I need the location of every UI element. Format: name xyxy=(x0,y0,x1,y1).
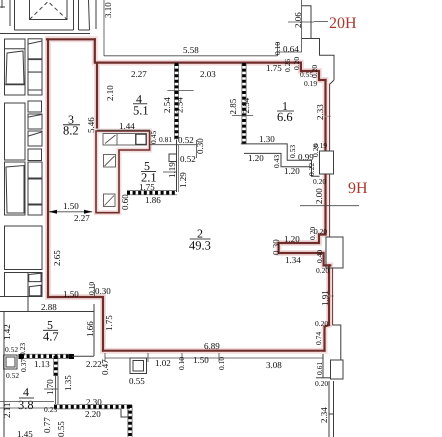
svg-text:0.52: 0.52 xyxy=(180,154,196,164)
svg-text:0.30: 0.30 xyxy=(271,239,281,255)
svg-text:2.54: 2.54 xyxy=(175,97,185,113)
svg-text:0.10: 0.10 xyxy=(177,357,186,370)
svg-text:0.45: 0.45 xyxy=(149,131,158,144)
svg-text:1.50: 1.50 xyxy=(63,289,79,299)
svg-text:0.20: 0.20 xyxy=(292,57,301,70)
svg-text:2.27: 2.27 xyxy=(131,69,147,79)
svg-text:5.58: 5.58 xyxy=(183,45,199,55)
svg-text:1.66: 1.66 xyxy=(85,321,95,337)
svg-text:0.20: 0.20 xyxy=(316,266,329,275)
bathroom thick wall band xyxy=(96,131,150,213)
lower-left unit room 5 (4.7) xyxy=(0,297,94,437)
svg-text:8.2: 8.2 xyxy=(63,124,79,138)
2.85/2.54 pair near x=244 xyxy=(232,114,253,116)
top main wall with steps xyxy=(96,63,326,80)
svg-text:1.29: 1.29 xyxy=(178,172,188,188)
svg-text:2.03: 2.03 xyxy=(200,69,216,79)
corner step near (94,297) xyxy=(93,304,95,356)
svg-text:0.47: 0.47 xyxy=(100,359,110,375)
svg-text:0.30: 0.30 xyxy=(195,138,205,154)
svg-text:1.50: 1.50 xyxy=(63,201,79,211)
svg-text:2.34: 2.34 xyxy=(319,407,329,423)
svg-text:1.02: 1.02 xyxy=(155,358,171,368)
svg-text:2.54: 2.54 xyxy=(162,97,172,113)
hatch vertical + room4 xyxy=(54,356,58,376)
top-left stair block xyxy=(0,0,96,34)
svg-text:49.3: 49.3 xyxy=(189,239,211,253)
svg-text:0.77: 0.77 xyxy=(42,417,52,433)
1.50 / 2.27 dim at y=212 xyxy=(49,211,93,213)
svg-text:1.30: 1.30 xyxy=(259,134,275,144)
svg-text:0.81: 0.81 xyxy=(159,135,172,144)
svg-text:1.75: 1.75 xyxy=(266,63,282,73)
svg-text:0.52: 0.52 xyxy=(178,135,194,145)
room1 bottom steps xyxy=(241,144,320,176)
svg-text:2.06: 2.06 xyxy=(293,12,303,28)
svg-text:0.64: 0.64 xyxy=(283,44,299,54)
svg-text:2.65: 2.65 xyxy=(52,250,62,266)
svg-text:4: 4 xyxy=(23,385,29,399)
svg-text:0.55: 0.55 xyxy=(129,376,145,386)
niche right of bathroom xyxy=(150,140,197,158)
svg-text:1.13: 1.13 xyxy=(34,359,50,369)
right wall below door xyxy=(324,174,326,235)
hatched walls xyxy=(175,63,179,140)
svg-text:0.26: 0.26 xyxy=(283,59,292,72)
svg-text:2.27: 2.27 xyxy=(74,213,90,223)
svg-text:2.85: 2.85 xyxy=(228,98,238,114)
svg-text:1.91: 1.91 xyxy=(320,290,330,306)
bay xyxy=(279,235,331,266)
svg-text:9H: 9H xyxy=(348,180,368,197)
hatched wall w/ fixtures room5 bottom xyxy=(21,354,72,358)
left furniture columns xyxy=(5,39,43,312)
svg-text:0.20: 0.20 xyxy=(315,319,328,328)
svg-text:2.00: 2.00 xyxy=(314,188,324,204)
svg-text:0.30: 0.30 xyxy=(95,286,111,296)
svg-text:1.75: 1.75 xyxy=(104,315,114,331)
svg-text:1.20: 1.20 xyxy=(284,234,300,244)
right wall lower xyxy=(328,265,330,325)
svg-text:1.86: 1.86 xyxy=(145,195,161,205)
svg-text:0.20: 0.20 xyxy=(310,65,319,78)
top dimension lines 3.10 / 5.58 / 0.64 / 2.06 xyxy=(104,0,314,56)
svg-text:1.50: 1.50 xyxy=(193,355,209,365)
door opening right wall xyxy=(320,151,334,174)
bottom wall xyxy=(103,350,325,352)
20H label xyxy=(314,21,328,23)
svg-text:5.46: 5.46 xyxy=(86,117,96,133)
svg-text:0.23: 0.23 xyxy=(18,343,27,356)
svg-text:1.20: 1.20 xyxy=(284,166,300,176)
svg-text:2.33: 2.33 xyxy=(315,104,325,120)
neighbour outline top right xyxy=(302,6,335,84)
bay window box xyxy=(326,237,343,268)
apartment red walls xyxy=(48,39,330,350)
svg-text:0.20: 0.20 xyxy=(314,227,327,236)
bottom dim chain xyxy=(105,357,323,359)
right wall above door xyxy=(324,80,326,151)
svg-text:1.34: 1.34 xyxy=(285,255,301,265)
svg-text:0.43: 0.43 xyxy=(272,155,281,168)
room3 right lower segment xyxy=(96,63,98,131)
svg-text:0.10: 0.10 xyxy=(273,42,282,55)
svg-text:1.44: 1.44 xyxy=(119,121,135,131)
svg-text:0.20: 0.20 xyxy=(315,379,328,388)
svg-text:2.54: 2.54 xyxy=(241,97,251,113)
svg-text:4.7: 4.7 xyxy=(43,330,59,344)
svg-text:6.89: 6.89 xyxy=(204,341,220,351)
room3 left/top/right xyxy=(47,39,49,297)
svg-text:0.53: 0.53 xyxy=(288,145,297,158)
svg-text:2.11: 2.11 xyxy=(2,403,12,418)
svg-text:5.1: 5.1 xyxy=(133,104,149,118)
svg-text:0.10: 0.10 xyxy=(217,357,226,370)
svg-text:1.75: 1.75 xyxy=(139,182,155,192)
svg-text:0.40: 0.40 xyxy=(315,250,324,263)
svg-text:1.19: 1.19 xyxy=(167,162,177,178)
room2 left lower xyxy=(48,297,103,351)
svg-text:1.20: 1.20 xyxy=(248,153,264,163)
svg-text:1.35: 1.35 xyxy=(63,375,73,391)
svg-text:0.52: 0.52 xyxy=(5,345,18,354)
neighbour outline right lower xyxy=(316,325,343,437)
svg-text:6.6: 6.6 xyxy=(277,110,293,124)
svg-text:3.8: 3.8 xyxy=(18,398,34,412)
svg-text:0.20: 0.20 xyxy=(313,177,326,186)
svg-text:0.99: 0.99 xyxy=(298,152,314,162)
svg-text:0.55: 0.55 xyxy=(56,421,66,437)
svg-text:3.10: 3.10 xyxy=(103,2,113,18)
2.54 pair near x=177 xyxy=(167,90,193,92)
svg-text:0.37: 0.37 xyxy=(19,359,28,372)
svg-text:0.60: 0.60 xyxy=(120,194,130,210)
svg-text:2.88: 2.88 xyxy=(41,302,57,312)
svg-text:0.19: 0.19 xyxy=(304,79,317,88)
svg-text:2.20: 2.20 xyxy=(85,409,101,419)
vent fixtures top band xyxy=(103,134,147,146)
svg-text:20H: 20H xyxy=(329,15,357,32)
svg-text:1.42: 1.42 xyxy=(2,324,12,340)
svg-text:0.22: 0.22 xyxy=(307,163,316,176)
svg-text:0.61: 0.61 xyxy=(315,362,324,375)
fixtures left band xyxy=(104,155,116,207)
svg-text:1.45: 1.45 xyxy=(17,429,33,437)
svg-text:1.70: 1.70 xyxy=(45,379,55,395)
svg-text:0.74: 0.74 xyxy=(314,332,323,345)
svg-text:3.08: 3.08 xyxy=(266,360,282,370)
bottom hatch xyxy=(54,405,130,409)
svg-text:2.10: 2.10 xyxy=(105,85,115,101)
svg-text:0.52: 0.52 xyxy=(6,371,19,380)
